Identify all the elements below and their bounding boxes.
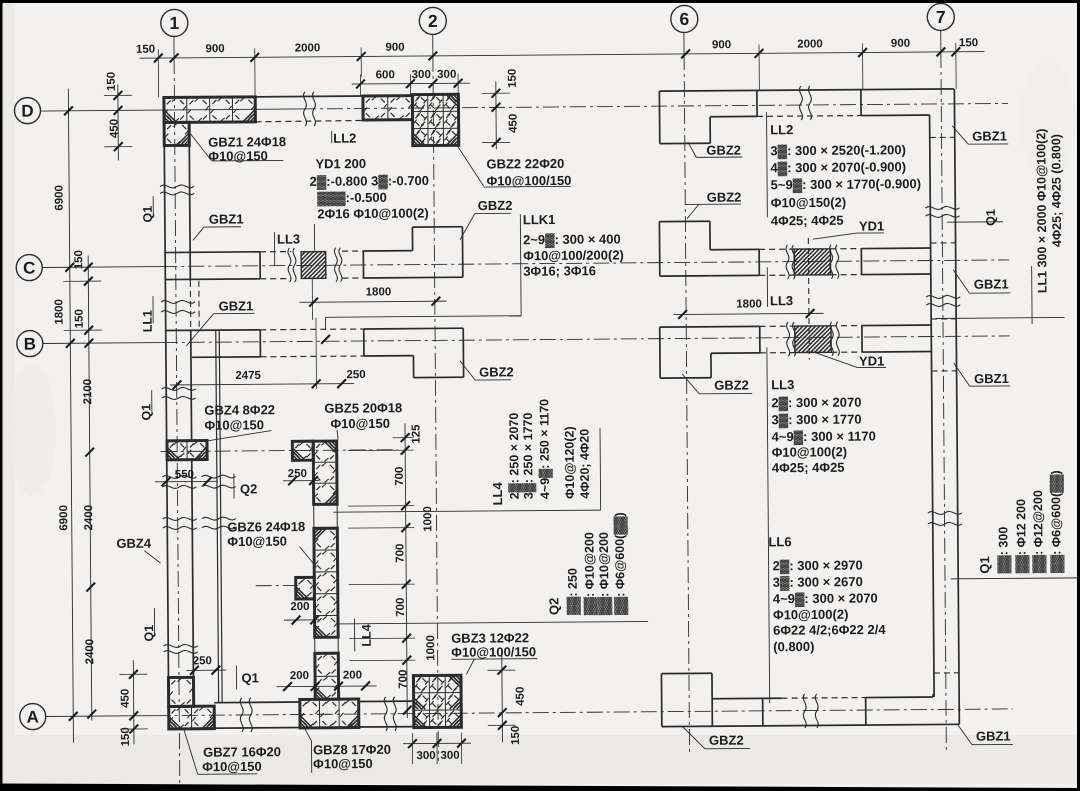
svg-text:2~9▓: 300 × 400: 2~9▓: 300 × 400 [523, 231, 621, 248]
label Q1 left wall middle [139, 390, 153, 420]
wall row A band right building [712, 694, 959, 726]
hatched pier YD1 row C right [768, 249, 857, 276]
label GBZ3 column [451, 630, 537, 674]
svg-text:Φ10@150: Φ10@150 [204, 417, 264, 432]
axis GBZ4 intermediate line [161, 450, 398, 452]
svg-text:Q2: Q2 [546, 598, 561, 615]
dimension 300 300 GBZ3 [403, 733, 471, 765]
svg-text:900: 900 [385, 42, 404, 54]
label Q1 right wall [947, 209, 1003, 226]
svg-text:2▓: 300 × 2070: 2▓: 300 × 2070 [771, 395, 861, 412]
svg-text:GBZ1: GBZ1 [209, 211, 244, 226]
break mark row D right [799, 86, 811, 120]
svg-text:▓▓: 250: ▓▓: 250 [566, 568, 581, 615]
svg-text:GBZ1: GBZ1 [218, 298, 253, 313]
svg-text:1000: 1000 [422, 506, 434, 532]
svg-text:▓▓: Φ12 200: ▓▓: Φ12 200 [1014, 499, 1030, 574]
svg-text:4Φ25; 4Φ25 (0.800): 4Φ25; 4Φ25 (0.800) [1049, 134, 1064, 247]
label LL3 LL6 leader line [767, 347, 770, 703]
wall GBZ2 top wall part [363, 96, 413, 120]
svg-text:3▓: 300 × 2520(-1.200): 3▓: 300 × 2520(-1.200) [770, 142, 906, 159]
label GBZ2 row B [460, 360, 514, 380]
svg-text:450: 450 [120, 689, 132, 708]
svg-text:125: 125 [410, 424, 422, 444]
axis B line [43, 336, 1010, 344]
svg-text:LL2: LL2 [770, 122, 793, 137]
hatched pier YD1 row B right [768, 326, 858, 353]
break marks left wall [160, 185, 198, 654]
opening LL4 upper [314, 504, 338, 528]
svg-text:Φ10@150: Φ10@150 [227, 534, 287, 549]
svg-text:6900: 6900 [54, 185, 66, 211]
wall Q2 interior [216, 331, 222, 703]
svg-text:GBZ1 24Φ18: GBZ1 24Φ18 [208, 134, 286, 150]
svg-text:7: 7 [936, 7, 946, 27]
wall row B band [166, 328, 463, 379]
label GBZ2 top right building [688, 142, 743, 158]
label GBZ1 right D [952, 125, 1008, 144]
label LL6 text block [768, 533, 886, 654]
svg-text:Q1: Q1 [984, 209, 998, 226]
axis GBZ6 intermediate line [256, 584, 298, 586]
svg-text:LL4: LL4 [490, 481, 505, 505]
text YD1 200 lines [309, 155, 429, 250]
wall row D left outline [164, 96, 363, 123]
svg-text:▓▓: Φ10@200: ▓▓: Φ10@200 [597, 532, 613, 615]
label YD1 upper [813, 218, 885, 239]
svg-text:GBZ6 24Φ18: GBZ6 24Φ18 [227, 519, 305, 535]
label GBZ1 row C [193, 211, 244, 240]
dimension 200 200 GBZ8 [276, 669, 376, 691]
svg-text:300: 300 [440, 750, 459, 762]
svg-text:150: 150 [120, 727, 132, 746]
label GBZ2 top right [457, 145, 571, 189]
left outer dimension chain 6900 1800 6900 [52, 89, 78, 743]
svg-text:4Φ25; 4Φ25: 4Φ25; 4Φ25 [771, 213, 844, 229]
dimension 1800 row C [299, 286, 446, 307]
svg-text:Q1: Q1 [977, 556, 992, 573]
svg-text:4~9▓: 300 × 1170: 4~9▓: 300 × 1170 [772, 428, 876, 445]
dimension 550 [155, 469, 218, 487]
svg-text:2▓: 300 × 2970: 2▓: 300 × 2970 [773, 558, 863, 575]
dashed YD1 hidden line [807, 238, 810, 359]
label GBZ2 row C [460, 198, 513, 240]
svg-text:LL4: LL4 [360, 624, 374, 646]
svg-text:1000: 1000 [425, 635, 437, 661]
column GBZ2 row C end block [412, 227, 462, 278]
dimension chain 125 700 1000 700 700 1000 700 [347, 423, 437, 719]
label LLK1 block [325, 211, 625, 329]
dimension 200 GBZ6 [284, 601, 320, 625]
label LL3 text block [771, 376, 876, 475]
column GBZ2 row B left end [660, 327, 711, 378]
svg-text:200: 200 [343, 670, 362, 682]
svg-text:6Φ22 4/2;6Φ22 2/4: 6Φ22 4/2;6Φ22 2/4 [773, 622, 886, 638]
svg-text:GBZ2: GBZ2 [706, 143, 741, 158]
svg-text:GBZ1: GBZ1 [972, 128, 1007, 143]
label GBZ4 left [116, 536, 160, 564]
break marks row C [288, 248, 342, 282]
svg-text:150: 150 [136, 44, 155, 56]
column GBZ4 [167, 441, 207, 460]
svg-text:GBZ1: GBZ1 [974, 371, 1009, 386]
svg-text:1800: 1800 [53, 299, 65, 325]
svg-text:▓▓: 300: ▓▓: 300 [996, 527, 1011, 574]
grid line 1 [174, 36, 180, 787]
dashed pier boundaries right wall [930, 137, 959, 673]
svg-text:550: 550 [175, 469, 194, 481]
grid line 2 [433, 34, 439, 760]
label LL1 left wall [140, 296, 154, 332]
label GBZ2 bottom right building [682, 725, 750, 749]
svg-text:150: 150 [74, 309, 86, 328]
svg-text:LL1: LL1 [141, 310, 155, 332]
svg-text:Φ10@100/150: Φ10@100/150 [451, 644, 536, 660]
svg-text:Φ10@150(2): Φ10@150(2) [771, 195, 847, 211]
dimension 1800 right [674, 298, 824, 319]
svg-text:1800: 1800 [736, 298, 762, 310]
svg-text:LL2: LL2 [333, 131, 356, 146]
svg-text:3Φ16; 3Φ16: 3Φ16; 3Φ16 [523, 263, 596, 279]
svg-text:600: 600 [376, 69, 395, 81]
svg-text:GBZ1: GBZ1 [976, 728, 1011, 743]
label GBZ1 row B [186, 298, 255, 346]
svg-text:▓▓: Φ10@200: ▓▓: Φ10@200 [582, 532, 598, 615]
sub dimension 600 300 300 [352, 69, 470, 96]
svg-text:6900: 6900 [58, 505, 70, 531]
svg-text:200: 200 [290, 670, 309, 682]
break marks right wall [925, 206, 962, 525]
svg-text:3▓: 300 × 1770: 3▓: 300 × 1770 [771, 412, 861, 429]
svg-text:1: 1 [169, 13, 179, 33]
svg-text:200: 200 [290, 601, 309, 613]
svg-text:150: 150 [73, 250, 85, 269]
label GBZ7 column [184, 729, 281, 775]
dimension 450 150 bottom left [119, 660, 148, 746]
label YD1 lower [812, 351, 886, 369]
axis D circle [14, 98, 40, 124]
svg-text:700: 700 [394, 467, 406, 486]
svg-text:B: B [24, 335, 36, 354]
svg-text:Φ10@150: Φ10@150 [330, 416, 390, 431]
svg-text:5~9▓: 300 × 1770(-0.900): 5~9▓: 300 × 1770(-0.900) [771, 176, 922, 193]
wall row B band right building [711, 325, 932, 353]
svg-text:GBZ5 20Φ18: GBZ5 20Φ18 [324, 400, 402, 416]
svg-text:2400: 2400 [84, 639, 96, 665]
svg-text:6: 6 [679, 9, 689, 29]
break marks YD1 row C [786, 245, 839, 279]
label GBZ1 bottom right building [958, 724, 1013, 744]
svg-text:250: 250 [288, 468, 307, 480]
svg-text:150: 150 [507, 69, 519, 88]
break mark row D opening [303, 92, 315, 126]
label LL3 upper right [767, 267, 793, 308]
label GBZ8 column [305, 728, 391, 773]
svg-text:Φ10@150: Φ10@150 [313, 756, 373, 771]
svg-text:4~9▓: 300 × 2070: 4~9▓: 300 × 2070 [773, 590, 878, 607]
label LL4 lower [354, 618, 373, 651]
svg-text:YD1: YD1 [859, 218, 884, 233]
top dimension line 150 900 2000 900 / 900 2000 900 150 [136, 37, 985, 97]
break marks Q2 wall [202, 475, 236, 529]
svg-text:GBZ1: GBZ1 [974, 276, 1009, 291]
svg-text:Φ10@150: Φ10@150 [202, 759, 262, 774]
label LL4 text block [332, 398, 600, 512]
svg-text:Q1: Q1 [141, 206, 155, 223]
axis A line [46, 709, 1013, 717]
grid line 7 [941, 30, 947, 750]
svg-text:2▓:-0.800 3▓:-0.700: 2▓:-0.800 3▓:-0.700 [310, 173, 430, 190]
label Q2 text block [336, 512, 648, 624]
svg-text:700: 700 [395, 598, 407, 617]
svg-text:250: 250 [346, 369, 365, 381]
label Q1 interior [236, 665, 259, 689]
wall row C band right building [710, 248, 931, 276]
svg-text:300: 300 [437, 69, 456, 81]
svg-text:GBZ2: GBZ2 [479, 364, 514, 379]
svg-text:3▓: 300 × 2670: 3▓: 300 × 2670 [773, 574, 863, 591]
svg-text:900: 900 [891, 38, 910, 50]
label Q1 left wall upper [141, 196, 155, 222]
label LL2 text block [767, 111, 922, 228]
svg-text:150: 150 [510, 726, 522, 745]
svg-text:D: D [21, 102, 33, 121]
break mark row A right [803, 694, 818, 728]
grid line 6 [684, 32, 690, 752]
svg-text:(0.800): (0.800) [773, 639, 814, 654]
dimension 250 GBZ7 [186, 655, 226, 675]
svg-text:4Φ25; 4Φ25: 4Φ25; 4Φ25 [772, 460, 845, 476]
hatched pier YD1 row C [274, 251, 356, 320]
svg-text:GBZ2 22Φ20: GBZ2 22Φ20 [486, 156, 564, 172]
svg-text:450: 450 [515, 687, 527, 706]
svg-text:YD1: YD1 [859, 353, 884, 368]
axis A circle [20, 703, 46, 729]
svg-text:2475: 2475 [235, 370, 261, 382]
column GBZ8 [299, 653, 358, 728]
wall row A band [194, 701, 414, 728]
svg-text:LL6: LL6 [768, 534, 791, 549]
left inner dimension chain 150 150 2100 2400 2400 [63, 250, 105, 721]
column GBZ2 row C left end [659, 221, 710, 276]
grid line 6 circle [671, 5, 698, 32]
svg-text:150: 150 [959, 37, 978, 49]
svg-text:2400: 2400 [83, 505, 95, 531]
svg-text:150: 150 [106, 72, 118, 91]
svg-text:Q1: Q1 [142, 625, 156, 642]
svg-text:GBZ2: GBZ2 [714, 377, 749, 392]
dimension 150 450 top right [482, 69, 520, 150]
svg-text:700: 700 [397, 670, 409, 689]
svg-text:450: 450 [109, 119, 121, 138]
svg-text:4▓: 300 × 2070(-0.900): 4▓: 300 × 2070(-0.900) [770, 159, 906, 176]
dimension 450 150 bottom right [487, 652, 527, 745]
opening LL4 lower [315, 637, 339, 653]
axis D line [41, 103, 1008, 111]
wall right Q1 vertical [929, 89, 959, 725]
wall row C band [165, 250, 463, 279]
dashed opening LL1 edges [190, 281, 199, 330]
svg-text:700: 700 [394, 544, 406, 563]
svg-text:300: 300 [412, 69, 431, 81]
grid line 1 circle [161, 9, 188, 36]
break marks row A left building [240, 697, 396, 732]
svg-text:Q1: Q1 [139, 404, 153, 421]
column GBZ5 [292, 441, 337, 505]
svg-text:2000: 2000 [295, 42, 321, 54]
column GBZ6 [295, 528, 338, 637]
svg-text:GBZ4: GBZ4 [116, 536, 152, 551]
column GBZ2 row A left end [661, 673, 712, 726]
svg-text:▓▓: Φ12@200: ▓▓: Φ12@200 [1031, 490, 1047, 573]
label LL2 left [332, 131, 357, 146]
svg-text:250: 250 [193, 655, 212, 667]
svg-text:GBZ2: GBZ2 [478, 198, 513, 213]
svg-text:2Φ16 Φ10@100(2): 2Φ16 Φ10@100(2) [317, 205, 428, 221]
label GBZ4 column [204, 402, 275, 441]
svg-text:GBZ8 17Φ20: GBZ8 17Φ20 [313, 742, 391, 758]
svg-text:450: 450 [508, 114, 520, 133]
label GBZ5 column [324, 400, 402, 440]
svg-text:GBZ2: GBZ2 [707, 190, 742, 205]
label Q1 text block right [950, 470, 1080, 579]
column GBZ1 corner L [164, 97, 256, 146]
svg-text:Φ10@100/200(2): Φ10@100/200(2) [523, 247, 624, 263]
svg-text:4~9▓: 250 × 1170: 4~9▓: 250 × 1170 [537, 399, 553, 499]
svg-text:LL3: LL3 [277, 231, 300, 246]
svg-text:LLK1: LLK1 [523, 212, 556, 227]
svg-text:900: 900 [205, 43, 224, 55]
svg-text:LL1 300 × 2000 Φ10@100(2): LL1 300 × 2000 Φ10@100(2) [1034, 129, 1049, 294]
dimension 250 GBZ5 [283, 468, 319, 485]
svg-text:Φ10@100(2): Φ10@100(2) [772, 444, 848, 460]
wall left Q1 vertical [164, 122, 194, 729]
column GBZ3 square [413, 675, 461, 727]
svg-text:LL3: LL3 [771, 377, 794, 392]
label Q2 [234, 473, 258, 498]
grid line 2 circle [419, 7, 446, 34]
svg-text:2000: 2000 [797, 38, 823, 50]
svg-text:2100: 2100 [82, 379, 94, 405]
label GBZ1 right top [953, 269, 1010, 293]
svg-text:1800: 1800 [366, 286, 392, 298]
svg-text:GBZ7 16Φ20: GBZ7 16Φ20 [203, 744, 281, 760]
label LL1 text block [934, 128, 1065, 324]
svg-text:▓▓: Φ6@600(▓▓): ▓▓: Φ6@600(▓▓) [613, 512, 629, 615]
svg-text:900: 900 [712, 39, 731, 51]
svg-text:Q1: Q1 [241, 670, 258, 685]
label GBZ6 column [227, 519, 316, 568]
grid line 7 circle [927, 3, 954, 30]
label GBZ2 row B right building [682, 373, 752, 394]
svg-text:C: C [23, 259, 35, 278]
label GBZ2 mid right building [685, 190, 742, 219]
wall row D right building [659, 89, 954, 144]
svg-text:A: A [27, 708, 39, 727]
svg-text:LL3: LL3 [770, 293, 793, 308]
svg-text:3▓: 250 × 1770: 3▓: 250 × 1770 [521, 412, 537, 499]
dimension 250 row B [337, 369, 366, 388]
svg-text:300: 300 [416, 750, 435, 762]
column GBZ2 top square [412, 94, 458, 145]
svg-text:YD1 200: YD1 200 [315, 156, 366, 171]
axis C circle [16, 255, 42, 281]
svg-text:2: 2 [428, 11, 438, 31]
svg-text:Φ10@120(2): Φ10@120(2) [562, 426, 577, 499]
break marks YD1 row B [787, 322, 840, 356]
svg-text:▓▓: Φ6@600(▓▓): ▓▓: Φ6@600(▓▓) [1049, 470, 1065, 573]
label GBZ1 top [188, 130, 286, 163]
axis C line [42, 260, 1009, 268]
svg-text:GBZ2: GBZ2 [709, 733, 744, 748]
svg-text:4Φ20; 4Φ20: 4Φ20; 4Φ20 [578, 429, 593, 499]
svg-text:▓▓▓:-0.500: ▓▓▓:-0.500 [317, 190, 387, 207]
axis B circle [17, 331, 43, 357]
label LL3 row C [274, 231, 300, 266]
svg-text:GBZ4 8Φ22: GBZ4 8Φ22 [204, 402, 275, 418]
svg-text:Q2: Q2 [240, 481, 257, 496]
label Q1 left wall lower [142, 608, 156, 641]
column GBZ7 corner L [168, 677, 214, 729]
svg-text:Φ10@100(2): Φ10@100(2) [773, 607, 849, 623]
dimension 2475 row B [170, 318, 355, 390]
label GBZ1 right mid [954, 362, 1010, 386]
dimension 150 450 top left [104, 72, 133, 161]
